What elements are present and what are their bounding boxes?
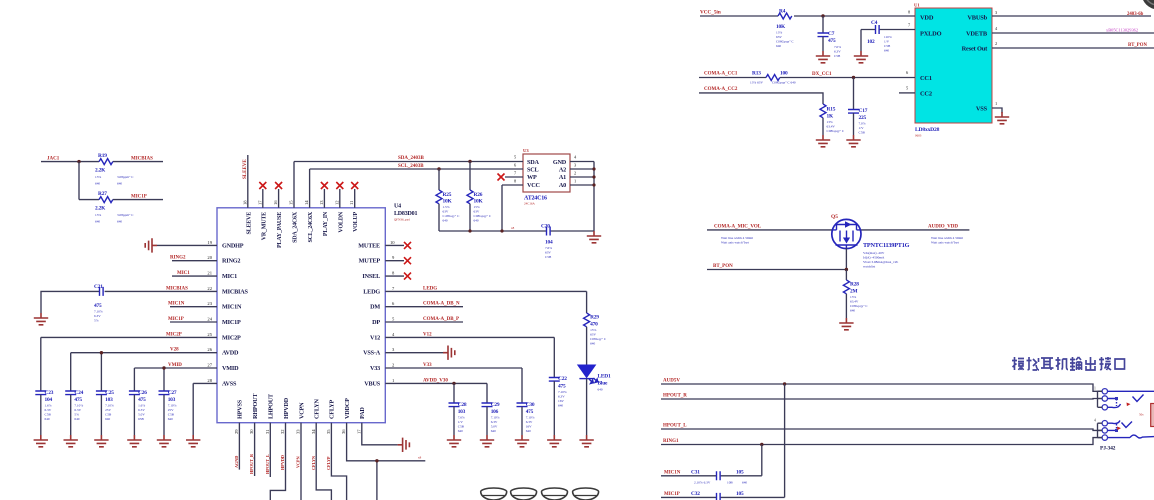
svg-text:MUTEP: MUTEP <box>359 258 381 265</box>
LED LED1 <box>578 365 611 435</box>
svg-text:MIC1P: MIC1P <box>131 194 147 199</box>
test point cup 4 <box>573 488 599 500</box>
svg-text:VCC_5in: VCC_5in <box>700 10 721 16</box>
svg-text:0603: 0603 <box>915 134 922 138</box>
svg-text:6.3V: 6.3V <box>94 314 101 318</box>
capacitor C30 <box>517 368 535 435</box>
svg-text:105: 105 <box>736 470 744 476</box>
wire JAC1 net <box>41 156 163 161</box>
svg-text:104: 104 <box>545 240 553 246</box>
svg-text:13%: 13% <box>776 31 782 35</box>
wire VCC_5in to VDD pin 8 <box>700 10 915 17</box>
svg-text:640: 640 <box>742 481 747 485</box>
svg-text:LEDG: LEDG <box>363 288 380 295</box>
svg-text:103: 103 <box>458 409 466 415</box>
title: analog headphone output interface (hand-drawn hanzi strokes) <box>1012 357 1125 370</box>
wire HPVSS pin 29 <box>234 423 239 470</box>
svg-text:4: 4 <box>995 26 998 31</box>
svg-text:HPOUT_L: HPOUT_L <box>265 454 270 474</box>
svg-text:C08Gpqy" C: C08Gpqy" C <box>474 214 492 218</box>
svg-text:VR_MUTE: VR_MUTE <box>261 212 267 240</box>
svg-text:6.3V: 6.3V <box>45 408 52 412</box>
capacitor C29 <box>482 383 500 435</box>
svg-text:27: 27 <box>207 363 212 368</box>
wire VDETB pin 4 <box>992 26 1154 33</box>
capacitor C31 <box>691 470 747 485</box>
wire Reset Out pin 2 <box>992 41 1154 48</box>
ground under C21 <box>34 313 48 325</box>
svg-text:LEDG: LEDG <box>423 286 437 291</box>
svg-text:6.3V: 6.3V <box>834 50 841 54</box>
svg-text:BT_PON: BT_PON <box>1128 43 1147 48</box>
svg-text:Watt line width 4 50mil: Watt line width 4 50mil <box>931 236 963 240</box>
svg-text:13: 13 <box>319 200 324 205</box>
svg-text:RING2: RING2 <box>170 256 186 261</box>
wire DP pin 5 <box>385 317 463 322</box>
svg-text:C22: C22 <box>558 376 567 382</box>
svg-text:LD8xxD28: LD8xxD28 <box>915 127 940 133</box>
svg-text:C21: C21 <box>94 284 103 290</box>
svg-text:RHPOUT: RHPOUT <box>252 393 259 419</box>
svg-text:25V: 25V <box>168 408 174 412</box>
svg-text:R19: R19 <box>98 153 107 159</box>
svg-text:Watt line width 4 50mil: Watt line width 4 50mil <box>721 236 753 240</box>
svg-text:AVSS: AVSS <box>222 380 237 387</box>
node JAC1 junction <box>77 160 80 200</box>
svg-text:4: 4 <box>1094 419 1096 423</box>
svg-text:A0: A0 <box>559 182 566 189</box>
svg-text:19: 19 <box>207 240 212 245</box>
svg-text:C31: C31 <box>691 470 700 476</box>
net label MICBIAS right of R19 <box>131 156 153 161</box>
U4 bottom pin names <box>237 393 366 419</box>
svg-text:CFLYP: CFLYP <box>326 456 331 470</box>
svg-text:SCL_24C6X: SCL_24C6X <box>308 211 314 242</box>
svg-text:C30: C30 <box>526 402 535 408</box>
svg-text:MIC1: MIC1 <box>222 273 237 280</box>
svg-text:640: 640 <box>443 219 448 223</box>
svg-text:12: 12 <box>334 200 339 205</box>
svg-text:C.08Gqy" C: C.08Gqy" C <box>443 214 461 218</box>
op-amp U4 LD83D01 body <box>217 204 417 423</box>
svg-text:R29: R29 <box>590 315 599 321</box>
svg-text:475: 475 <box>74 397 82 403</box>
svg-text:VSS: VSS <box>976 106 988 113</box>
svg-text:C5B: C5B <box>859 131 866 135</box>
wire BT_PON to gate <box>707 248 848 271</box>
svg-text:13% 63V: 13% 63V <box>750 81 763 85</box>
svg-text:6: 6 <box>514 163 517 168</box>
wire VMID pin 27 <box>134 363 217 391</box>
svg-text:5%: 5% <box>94 319 99 323</box>
svg-text:C26: C26 <box>138 390 147 396</box>
capacitor C7 <box>818 16 842 58</box>
svg-text:32: 32 <box>280 429 285 434</box>
svg-text:640: 640 <box>458 429 463 433</box>
svg-text:MIC1N: MIC1N <box>664 471 681 476</box>
svg-text:640: 640 <box>526 429 531 433</box>
svg-text:C5B: C5B <box>834 54 841 58</box>
transistor Q5 TPNTC1139PT1G <box>831 214 910 269</box>
U4 top pin names <box>246 211 359 248</box>
svg-text:4: 4 <box>574 155 577 160</box>
svg-text:16V: 16V <box>526 425 532 429</box>
svg-text:63.4V: 63.4V <box>850 300 859 304</box>
svg-text:8: 8 <box>514 179 517 184</box>
svg-text:640: 640 <box>95 182 100 186</box>
svg-text:BT_PON: BT_PON <box>713 264 733 269</box>
wire HPOUT_R net <box>661 394 1102 399</box>
ground at PAD <box>398 438 410 452</box>
svg-text:1.5%: 1.5% <box>443 205 450 209</box>
wire CC1 net <box>699 70 915 78</box>
pin 16 no-connect <box>275 182 282 208</box>
capacitor C25 <box>96 390 114 435</box>
svg-text:11: 11 <box>349 200 354 205</box>
svg-text:SDA_24C6X: SDA_24C6X <box>293 211 299 243</box>
svg-text:470: 470 <box>590 322 598 328</box>
svg-text:7: 7 <box>392 286 395 291</box>
pin 12 no-connect <box>336 182 343 208</box>
svg-text:LD83D01: LD83D01 <box>394 211 417 217</box>
svg-text:63V: 63V <box>545 251 551 255</box>
svg-text:13%: 13% <box>95 213 101 217</box>
svg-text:GND: GND <box>553 159 567 166</box>
svg-text:COMA-A_CC1: COMA-A_CC1 <box>704 72 738 77</box>
svg-text:103: 103 <box>105 397 113 403</box>
svg-text:13%: 13% <box>95 175 101 179</box>
svg-text:7.10%: 7.10% <box>168 404 177 408</box>
svg-text:C17: C17 <box>859 108 868 114</box>
ground at GNDHP <box>145 238 157 252</box>
svg-text:HPOUT_L: HPOUT_L <box>663 424 687 429</box>
svg-text:5%: 5% <box>74 413 79 417</box>
svg-text:C5B: C5B <box>105 413 112 417</box>
svg-text:A1: A1 <box>559 174 566 181</box>
pin 17 no-connect <box>259 182 266 208</box>
svg-text:AUDIO_VDD: AUDIO_VDD <box>928 225 958 230</box>
svg-text:6.3V: 6.3V <box>138 408 145 412</box>
wire MIC2P pin 25 <box>41 332 217 391</box>
svg-text:17: 17 <box>356 429 361 434</box>
svg-text:C20: C20 <box>541 224 550 230</box>
capacitor C27 <box>159 390 177 435</box>
svg-text:7: 7 <box>514 171 517 176</box>
svg-text:28: 28 <box>207 378 212 383</box>
svg-text:29: 29 <box>234 429 239 434</box>
svg-text:CFLYP: CFLYP <box>329 400 336 419</box>
wire CFLYN pin 34 <box>311 423 332 500</box>
svg-text:640: 640 <box>105 417 110 421</box>
svg-text:HPOUT_R: HPOUT_R <box>663 394 687 399</box>
svg-text:AGND: AGND <box>234 456 239 468</box>
svg-text:16: 16 <box>273 200 278 205</box>
wire RING2 pin 20 <box>170 256 217 261</box>
svg-text:MIC2P: MIC2P <box>166 332 182 337</box>
svg-text:R25: R25 <box>443 192 452 198</box>
svg-text:C08Gpqy" C: C08Gpqy" C <box>850 304 868 308</box>
svg-text:8: 8 <box>392 271 395 276</box>
ground under R15 <box>816 135 830 147</box>
svg-text:TPNTC1139PT1G: TPNTC1139PT1G <box>863 242 910 249</box>
svg-text:Vds(max) -20V: Vds(max) -20V <box>863 251 885 255</box>
wire MIC1N pin 23 <box>168 302 217 307</box>
svg-text:DP: DP <box>372 319 380 326</box>
svg-text:34: 34 <box>311 429 316 434</box>
wire C31 branch <box>661 445 762 476</box>
svg-text:475: 475 <box>828 38 836 44</box>
wire LEDG pin 7 <box>385 286 586 291</box>
svg-text:VMID: VMID <box>168 363 182 368</box>
wire MICBIAS pin 22 <box>41 286 217 313</box>
svg-text:HPVSS: HPVSS <box>237 399 244 419</box>
wire RHPOUT pin 30 <box>249 423 254 476</box>
capacitor C28 <box>449 383 467 435</box>
svg-text:PAD: PAD <box>359 407 366 419</box>
test point cup 3 <box>542 488 568 500</box>
svg-text:3.08ppm" C: 3.08ppm" C <box>117 213 134 217</box>
svg-text:35: 35 <box>326 429 331 434</box>
svg-text:640: 640 <box>850 309 855 313</box>
svg-text:21: 21 <box>207 271 212 276</box>
ground under C17 <box>846 135 860 147</box>
svg-text:640: 640 <box>117 220 122 224</box>
svg-text:C5B: C5B <box>168 413 175 417</box>
resistor R25 pullup <box>436 167 460 231</box>
wire VSS pin 1 <box>992 101 1002 113</box>
node CC1/C17 junction <box>852 76 855 79</box>
wire VCPN pin 33 <box>296 423 301 500</box>
svg-text:x8: x8 <box>418 456 422 460</box>
svg-text:DX_CC1: DX_CC1 <box>812 72 832 77</box>
svg-text:U4: U4 <box>394 204 401 210</box>
svg-text:26: 26 <box>207 347 212 352</box>
svg-text:640: 640 <box>598 388 603 392</box>
svg-text:HPVDD: HPVDD <box>280 455 285 470</box>
svg-text:475: 475 <box>526 409 534 415</box>
U4 left pin names <box>222 242 249 387</box>
resistor R26 pullup <box>467 160 492 231</box>
svg-text:7.6%: 7.6% <box>458 416 465 420</box>
svg-text:1K: 1K <box>827 114 834 120</box>
svg-text:63B: 63B <box>138 417 144 421</box>
svg-text:SCL_2403B: SCL_2403B <box>398 164 424 169</box>
wire HPOUT_L net <box>661 424 1102 431</box>
wire V33 pin 2 <box>385 363 522 368</box>
svg-text:C08Gqy" C: C08Gqy" C <box>590 337 607 341</box>
pin 5 stub CC2 <box>899 86 915 93</box>
capacitor C4 <box>867 20 892 53</box>
pin WP stub with no-connect X <box>498 171 524 181</box>
wire MIC1P pin 24 <box>168 317 217 322</box>
svg-text:C08Gpqy" C: C08Gpqy" C <box>827 129 845 133</box>
svg-text:C4: C4 <box>871 20 878 26</box>
svg-text:C5B: C5B <box>545 255 552 259</box>
svg-text:U3: U3 <box>523 148 529 153</box>
svg-text:10B: 10B <box>727 481 733 485</box>
resistor R29 <box>584 291 607 365</box>
svg-text:V33: V33 <box>423 363 432 368</box>
svg-text:C7: C7 <box>828 31 835 37</box>
wire DM pin 6 <box>385 302 463 307</box>
net label MIC1P right of R27 <box>131 194 147 199</box>
svg-text:PLAY_PAUSE: PLAY_PAUSE <box>277 212 283 248</box>
svg-text:SLEEVE: SLEEVE <box>243 159 248 179</box>
svg-text:6.3V: 6.3V <box>526 420 533 424</box>
ground under C4 <box>854 51 868 63</box>
svg-text:2.2K: 2.2K <box>95 168 106 174</box>
svg-text:106: 106 <box>491 409 499 415</box>
wire HPVDD pin 32 <box>270 423 285 500</box>
wire C32 branch <box>661 384 785 497</box>
right pin stubs to ground bus <box>570 155 596 232</box>
svg-text:63V: 63V <box>590 333 596 337</box>
connector pin stubs and bracket <box>1094 387 1102 438</box>
svg-text:7.6%: 7.6% <box>545 246 552 250</box>
svg-text:225: 225 <box>859 115 867 121</box>
svg-text:17: 17 <box>257 200 262 205</box>
svg-text:VDETB: VDETB <box>966 31 988 38</box>
wire MUTEP pin 9 no-connect <box>385 257 411 264</box>
svg-text:30: 30 <box>249 429 254 434</box>
svg-text:AUD5V: AUD5V <box>663 379 680 384</box>
svg-text:50s: 50s <box>1139 413 1144 417</box>
svg-text:10: 10 <box>390 240 395 245</box>
svg-text:640: 640 <box>884 49 889 53</box>
wire VBUS pin 1 <box>385 378 487 385</box>
svg-text:C32: C32 <box>691 491 700 497</box>
svg-text:640: 640 <box>45 417 50 421</box>
wire pin 15 SDA up <box>293 162 295 208</box>
svg-text:15%: 15% <box>474 205 480 209</box>
wire VBUSb pin 3 <box>992 10 1151 17</box>
svg-text:14: 14 <box>304 200 309 205</box>
svg-text:VSS-A: VSS-A <box>363 350 381 357</box>
wire INSEL pin 8 no-connect <box>385 273 411 280</box>
svg-text:AVDD: AVDD <box>222 350 239 357</box>
svg-text:6: 6 <box>392 301 395 306</box>
svg-text:LHPOUT: LHPOUT <box>268 393 275 419</box>
svg-text:6.3V: 6.3V <box>74 408 81 412</box>
ground under C22 <box>547 435 561 447</box>
capacitor C21 <box>94 284 103 323</box>
wire PXLDO pin 7 <box>861 23 915 30</box>
svg-text:MICBIAS: MICBIAS <box>166 286 188 291</box>
svg-text:Blue: Blue <box>598 381 608 387</box>
wire PAD pin 17 to ground <box>362 423 398 445</box>
U4 right pin numbers <box>390 240 395 383</box>
svg-text:MIC2P: MIC2P <box>222 334 241 341</box>
svg-text:22: 22 <box>207 286 212 291</box>
svg-text:A2: A2 <box>559 167 566 174</box>
resistor R27 <box>95 191 134 223</box>
svg-text:7.10%: 7.10% <box>558 390 567 394</box>
svg-text:2.2K: 2.2K <box>95 206 106 212</box>
svg-text:JAC1: JAC1 <box>47 156 60 161</box>
logo circle top right corner <box>1142 0 1154 10</box>
svg-text:475: 475 <box>138 397 146 403</box>
svg-text:7.0%: 7.0% <box>859 122 866 126</box>
svg-text:63V: 63V <box>776 35 782 39</box>
svg-text:2: 2 <box>995 41 997 46</box>
wire VSS-A pin 3 to ground <box>385 352 443 354</box>
ground under C26 <box>127 435 141 447</box>
svg-text:SDA: SDA <box>527 159 540 166</box>
svg-text:C08Gpqy" C: C08Gpqy" C <box>776 40 794 44</box>
svg-text:475: 475 <box>558 384 566 390</box>
svg-text:PLAY_IN: PLAY_IN <box>323 211 329 236</box>
svg-text:13%: 13% <box>827 120 833 124</box>
svg-text:640: 640 <box>558 404 563 408</box>
svg-text:VBUS: VBUS <box>364 380 380 387</box>
svg-text:24: 24 <box>207 317 212 322</box>
svg-text:U1: U1 <box>914 3 920 8</box>
resistor R28 <box>843 270 868 319</box>
svg-text:R27: R27 <box>98 191 107 197</box>
svg-text:LED1: LED1 <box>598 374 611 380</box>
svg-text:VOLDN: VOLDN <box>338 211 344 232</box>
svg-text:105: 105 <box>736 491 744 497</box>
svg-text:7.0%: 7.0% <box>834 45 841 49</box>
ground under C29 <box>480 435 494 447</box>
svg-text:R28: R28 <box>850 282 859 288</box>
ground under C28 <box>447 435 461 447</box>
svg-text:C25: C25 <box>105 390 114 396</box>
svg-text:6.3V: 6.3V <box>558 395 565 399</box>
svg-text:2: 2 <box>392 363 395 368</box>
svg-text:CFLYN: CFLYN <box>314 399 321 419</box>
svg-text:24C16A: 24C16A <box>524 202 536 206</box>
svg-text:Q5: Q5 <box>831 214 838 220</box>
svg-text:RING1: RING1 <box>663 439 679 444</box>
svg-text:25V: 25V <box>105 408 111 412</box>
svg-text:VOLUP: VOLUP <box>353 211 359 231</box>
svg-text:5.0V: 5.0V <box>491 425 498 429</box>
svg-text:7.10%: 7.10% <box>105 404 114 408</box>
svg-text:7.10%: 7.10% <box>491 416 500 420</box>
svg-text:16V: 16V <box>558 399 564 403</box>
svg-text:MICBIAS: MICBIAS <box>131 156 153 161</box>
resistor R15 <box>820 104 845 135</box>
svg-text:R13: R13 <box>752 71 761 77</box>
U4 left pin numbers <box>207 240 212 383</box>
svg-text:640: 640 <box>491 429 496 433</box>
svg-text:9: 9 <box>392 255 395 260</box>
svg-text:C28: C28 <box>458 402 467 408</box>
svg-text:C23: C23 <box>45 390 54 396</box>
pin 13 no-connect <box>321 182 328 208</box>
svg-text:640: 640 <box>95 220 100 224</box>
U4 bottom pin numbers <box>234 429 361 434</box>
pin VCC stub <box>502 179 523 232</box>
svg-text:V33: V33 <box>370 365 380 372</box>
U4 right pin names <box>358 242 380 387</box>
svg-text:Watt axis watch"Iset: Watt axis watch"Iset <box>721 241 749 245</box>
wire SDA_2403B net <box>294 155 523 162</box>
svg-text:C5B: C5B <box>884 44 891 48</box>
resistor R4 <box>776 9 794 49</box>
wire MUTEE pin 10 no-connect <box>385 242 411 249</box>
connector label PJ-342 <box>1100 446 1116 452</box>
svg-text:Watt axis watch"Iset: Watt axis watch"Iset <box>931 241 959 245</box>
svg-text:63.4V: 63.4V <box>827 125 836 129</box>
svg-text:1/V: 1/V <box>859 126 865 130</box>
capacitor C23 <box>35 390 53 435</box>
capacitor C24 <box>65 390 83 435</box>
svg-text:640: 640 <box>590 342 595 346</box>
svg-text:13%: 13% <box>850 295 856 299</box>
svg-text:4: 4 <box>392 332 395 337</box>
